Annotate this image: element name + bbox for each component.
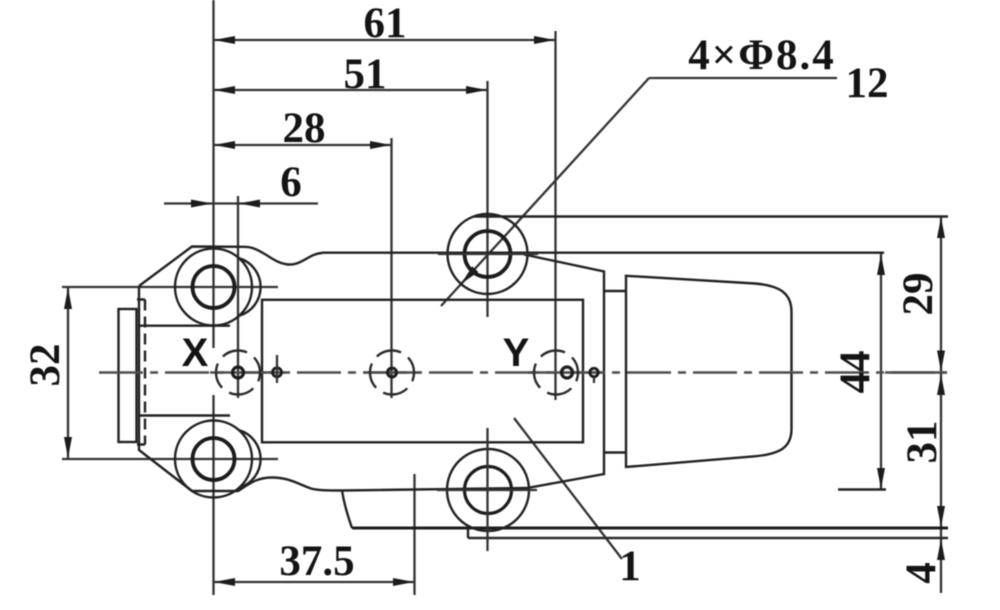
svg-text:29: 29 (895, 273, 942, 316)
svg-text:28: 28 (283, 105, 326, 152)
svg-text:1: 1 (619, 543, 641, 590)
svg-text:31: 31 (899, 421, 946, 464)
svg-text:4×Φ8.4: 4×Φ8.4 (688, 32, 835, 79)
svg-text:44: 44 (832, 351, 879, 394)
svg-text:12: 12 (846, 60, 889, 107)
svg-text:32: 32 (22, 344, 69, 387)
svg-text:4: 4 (898, 562, 945, 584)
svg-text:61: 61 (364, 0, 407, 47)
svg-text:37.5: 37.5 (279, 538, 354, 585)
svg-text:X: X (182, 331, 209, 375)
svg-text:Y: Y (503, 331, 530, 375)
svg-text:51: 51 (344, 51, 387, 98)
svg-text:6: 6 (280, 159, 302, 206)
